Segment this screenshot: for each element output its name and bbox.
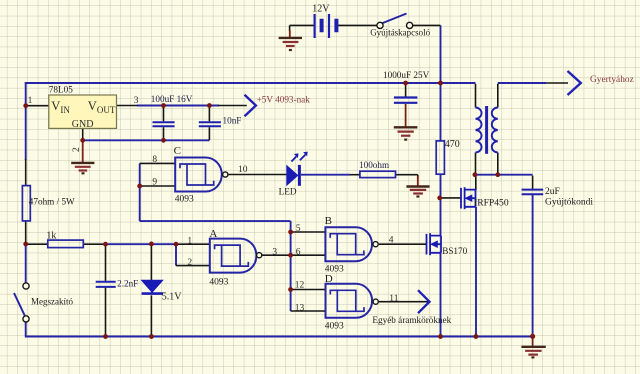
pin 5 wire — [291, 231, 326, 233]
capacitor C1 100uF 16V plates — [153, 122, 175, 126]
svg-text:BS170: BS170 — [442, 246, 467, 256]
op-amp U1D NAND gate D 4093 — [326, 284, 379, 318]
wire switch to rail drop x=440.5 — [440, 25, 442, 83]
pin 13 wire — [291, 310, 326, 312]
capacitor 2.2nF leads — [105, 244, 107, 336]
op-amp U1C NAND gate C 4093 — [175, 158, 228, 192]
node zener bottom — [149, 334, 154, 339]
pin 1 wire 78L05 — [26, 105, 49, 107]
node gnd pin2 — [80, 138, 85, 143]
svg-text:78L05: 78L05 — [49, 84, 73, 94]
capacitor 2uF top lead — [532, 176, 534, 189]
wire battery to switch — [338, 24, 377, 26]
svg-text:2: 2 — [72, 147, 82, 152]
svg-text:4093: 4093 — [209, 277, 228, 287]
svg-text:Megszakító: Megszakító — [31, 297, 73, 307]
pin 3 wire gate A output — [262, 254, 291, 256]
svg-text:12: 12 — [295, 281, 305, 291]
svg-text:1000uF 25V: 1000uF 25V — [383, 70, 430, 80]
pin 10 wire gate C output — [228, 174, 286, 176]
transformer T1 — [476, 106, 498, 154]
switch S1 Gyujtaskapcsolo — [377, 14, 413, 29]
svg-text:47ohm / 5W: 47ohm / 5W — [29, 197, 75, 207]
wire into 100ohm — [350, 174, 360, 176]
svg-text:100uF 16V: 100uF 16V — [151, 94, 193, 104]
pin 8 wire — [140, 162, 176, 164]
battery B1 12V plates — [315, 14, 337, 38]
wire IRFP450 gate — [440, 197, 461, 199]
pin 2 wire 78L05 — [82, 128, 84, 140]
resistor R1 47ohm 5W — [22, 186, 30, 221]
svg-text:2: 2 — [187, 258, 192, 268]
pin 4 wire gate B to BS170 gate — [379, 243, 426, 245]
wire 1k to gate A y=244.2 — [106, 243, 177, 245]
diode D2 zener 5.1V — [142, 280, 163, 293]
wire gate A pin2 tie x=176 — [175, 244, 177, 265]
transistor Q2 BS170 — [427, 233, 442, 255]
capacitor C2 10nF plates — [199, 122, 221, 126]
node pin9 — [137, 184, 142, 189]
svg-text:+5V 4093-nak: +5V 4093-nak — [257, 94, 311, 104]
zener diode leads — [150, 244, 152, 337]
capacitor C4 2.2nF plates — [96, 282, 116, 287]
wire 470 branch x=440.5 — [440, 83, 442, 198]
op-amp U1A NAND gate A 4093 — [210, 239, 262, 273]
wire IRFP450 source drop — [475, 207, 477, 337]
svg-text:B: B — [325, 215, 332, 227]
ground 78L05 — [71, 140, 94, 173]
node 1000uF rail — [403, 81, 408, 86]
svg-text:3: 3 — [134, 96, 139, 106]
pin 3 wire 78L05 — [117, 105, 138, 107]
capacitor C2 leads — [208, 106, 210, 141]
wire into Gyertyahoz port — [546, 82, 568, 84]
node 2.2nF bottom — [103, 334, 108, 339]
capacitor C3 1000uF 25V plates — [394, 98, 418, 103]
port arrow +5V 4093-nak — [245, 95, 256, 116]
node pin5 — [288, 230, 293, 235]
op-amp U1B NAND gate B 4093 — [325, 227, 378, 261]
svg-text:8: 8 — [152, 155, 157, 165]
svg-text:5: 5 — [296, 224, 301, 234]
svg-text:LED: LED — [279, 187, 297, 197]
svg-text:4: 4 — [389, 235, 394, 245]
svg-text:6: 6 — [296, 247, 301, 257]
svg-text:IRFP450: IRFP450 — [474, 197, 509, 208]
ground 100ohm — [406, 176, 429, 197]
svg-text:9: 9 — [152, 177, 157, 187]
svg-text:4093: 4093 — [325, 322, 344, 332]
wire +5V rail y=105.5 — [137, 105, 219, 107]
node IRFP source rail — [474, 334, 479, 339]
ground 1000uF — [394, 104, 418, 140]
svg-text:3: 3 — [272, 248, 277, 258]
node pin6 — [288, 253, 293, 258]
node pin12 — [288, 287, 293, 292]
switch S2 Megszakito — [14, 283, 29, 322]
wire 2uF drop x=532.6 — [532, 195, 534, 337]
svg-text:2.2nF: 2.2nF — [117, 279, 138, 289]
wire 100ohm to ground — [395, 175, 417, 179]
regulator U2 78L05 body — [49, 95, 117, 130]
svg-text:5.1V: 5.1V — [162, 292, 183, 303]
svg-text:C: C — [174, 145, 181, 157]
svg-text:Egyéb áramköröknek: Egyéb áramköröknek — [372, 315, 451, 325]
wire oscillator net y=221.1 — [140, 220, 291, 222]
svg-text:Gyertyához: Gyertyához — [590, 75, 634, 85]
wire 1k resistor row — [26, 243, 106, 245]
wire ground bottom rail y=336.5 — [25, 336, 534, 338]
node gate A in — [174, 242, 179, 247]
node 2.2nF top — [103, 242, 108, 247]
wire gate B D input feeder x=290.6 — [290, 221, 292, 311]
wire to Gyertyahoz port — [498, 82, 546, 84]
transistor Q1 IRFP450 — [461, 187, 476, 209]
wire battery left — [290, 25, 315, 31]
wire 47ohm resistor leads — [25, 159, 27, 244]
node zener top — [149, 242, 154, 247]
svg-text:10: 10 — [238, 165, 248, 175]
port arrow Egyeb aramkoroknek — [418, 290, 430, 313]
svg-text:470: 470 — [445, 139, 460, 150]
svg-text:2uF: 2uF — [545, 187, 560, 197]
capacitor 1000uF top lead — [405, 83, 407, 97]
node C1 top — [161, 103, 166, 108]
svg-text:Gyújtáskapcsoló: Gyújtáskapcsoló — [370, 27, 430, 37]
svg-text:D: D — [325, 273, 333, 285]
node trafo left — [473, 172, 478, 177]
pin 1 wire gate A — [176, 243, 210, 245]
wire +12V top rail y=83 — [25, 82, 476, 84]
svg-text:Gyújtókondi: Gyújtókondi — [545, 198, 593, 208]
node trafo right — [495, 172, 500, 177]
wire capacitor bottom rail y=140.3 — [83, 139, 210, 141]
ground main rail — [521, 337, 545, 358]
node IRFP gate — [437, 196, 442, 201]
capacitor C1 leads — [163, 106, 165, 141]
resistor R2 1k — [48, 240, 84, 248]
svg-text:100ohm: 100ohm — [359, 160, 389, 170]
svg-text:1: 1 — [187, 237, 192, 247]
wire gate C input vertical x=139.7 — [139, 163, 141, 221]
svg-text:1: 1 — [28, 96, 33, 106]
pin 12 wire — [291, 289, 326, 291]
node gnd rail end — [530, 334, 535, 339]
node C1 bottom — [161, 138, 166, 143]
transformer winding leads — [476, 84, 498, 175]
wire IRFP450 drain — [475, 175, 477, 190]
svg-text:4093: 4093 — [175, 195, 194, 205]
wire BS170 source to ground rail — [440, 253, 442, 337]
wire LED to 100ohm — [301, 174, 350, 176]
pin 2 wire gate A — [176, 265, 210, 267]
node 1k rail — [23, 242, 28, 247]
diode D1 LED — [287, 152, 308, 186]
pin 6 wire — [291, 254, 326, 256]
wire left vertical rail x=25.7 — [25, 82, 27, 336]
pin 9 wire — [140, 185, 176, 187]
port arrow Gyertyahoz — [568, 71, 581, 95]
svg-text:1k: 1k — [46, 231, 56, 242]
svg-text:GND: GND — [72, 119, 94, 130]
pin 11 wire gate D to port — [379, 301, 429, 303]
svg-text:A: A — [209, 228, 217, 240]
wire to +5V port — [218, 105, 247, 107]
wire switch to corner — [413, 24, 441, 26]
node pin1 rail — [23, 103, 28, 108]
resistor R4 470 — [436, 141, 444, 174]
ground battery — [279, 30, 302, 50]
wire transformer bottom rail y=174.7 — [475, 174, 533, 176]
capacitor C5 2uF plates — [522, 190, 544, 195]
wire gate junction to BS170 drain — [440, 198, 442, 236]
resistor R3 100ohm — [360, 171, 396, 177]
node switch drop — [438, 81, 443, 86]
svg-text:10nF: 10nF — [223, 116, 242, 126]
svg-text:11: 11 — [389, 294, 398, 304]
svg-text:13: 13 — [295, 304, 305, 314]
svg-text:12V: 12V — [312, 3, 330, 14]
node BS170 source rail — [438, 334, 443, 339]
node C2 top — [207, 103, 212, 108]
